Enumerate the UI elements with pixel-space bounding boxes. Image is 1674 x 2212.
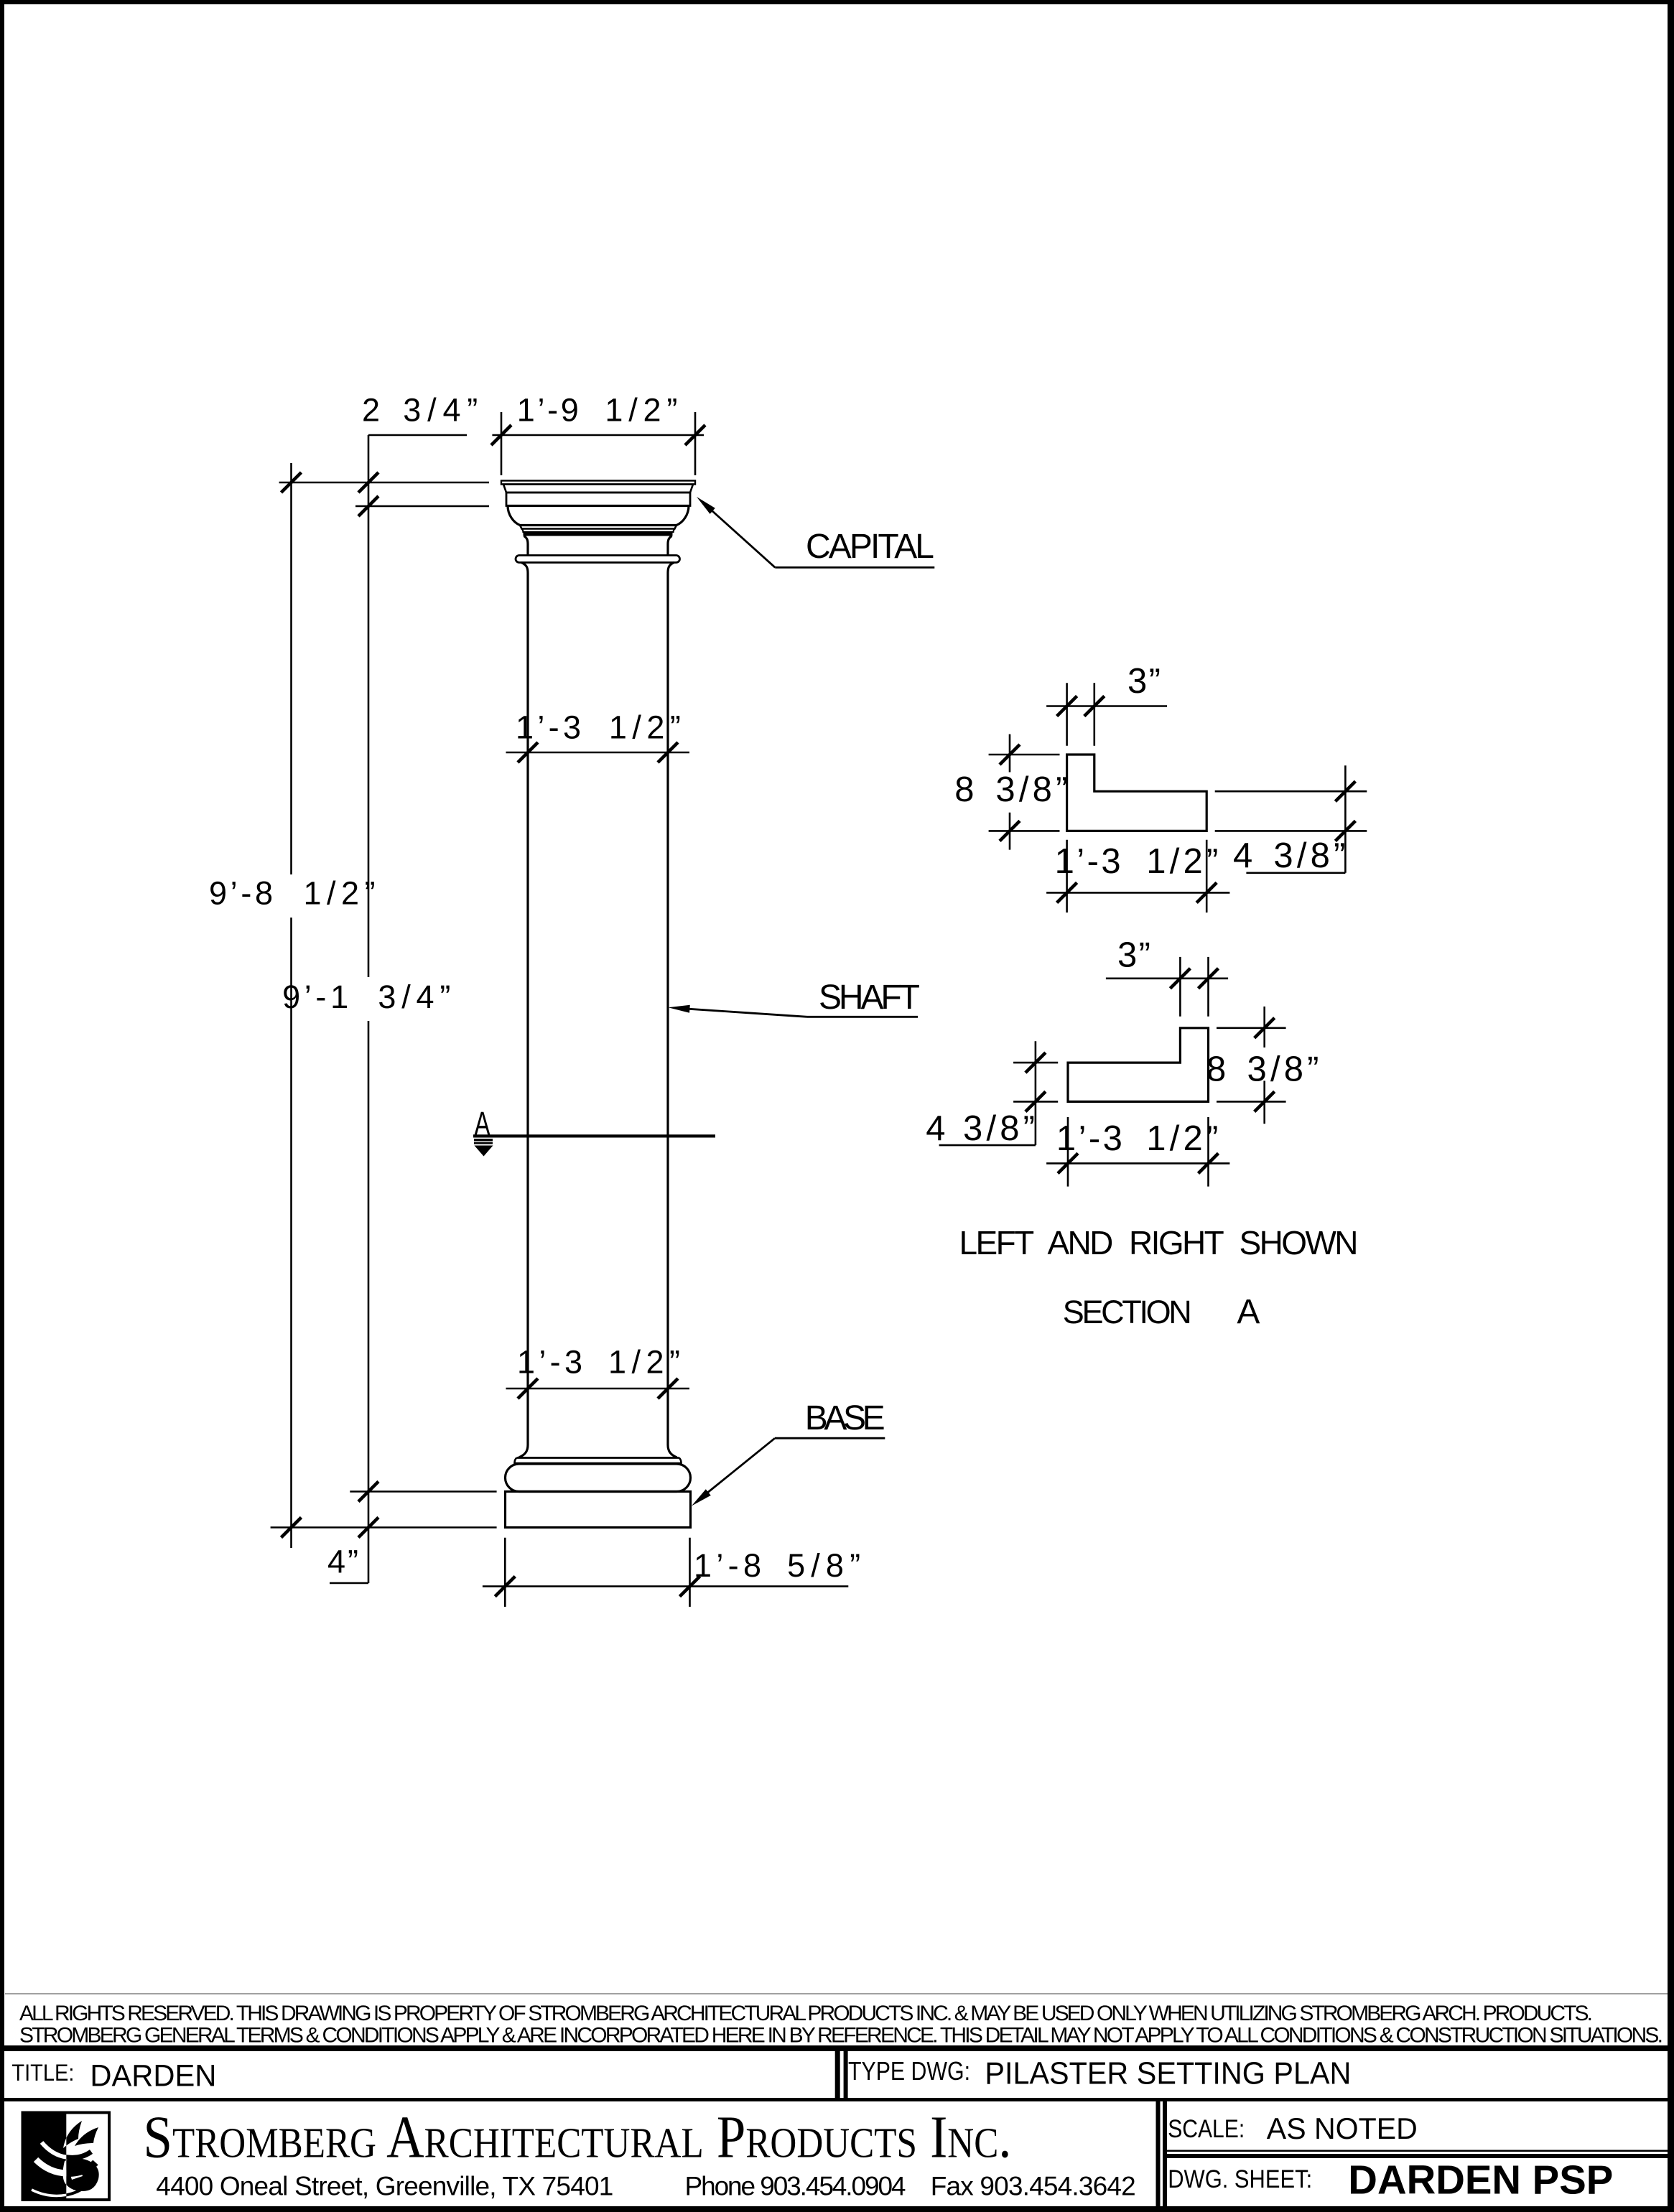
logo row vertical divider: [1156, 2101, 1168, 2206]
detail2 dim 8 3/8" line: [1263, 1007, 1265, 1124]
logo box: [22, 2111, 109, 2201]
svg-text:8: 8: [1206, 1050, 1226, 1088]
svg-text:SHAFT: SHAFT: [819, 979, 920, 1017]
svg-text:4: 4: [1233, 836, 1252, 875]
dim text 4": [327, 1544, 358, 1580]
svg-text:AS NOTED: AS NOTED: [1267, 2111, 1418, 2145]
detail1 dim text 1'-3 1/2": [1055, 842, 1219, 881]
dim text 1'-3 1/2" bottom: [517, 1343, 680, 1380]
detail2 dim text 1'-3 1/2": [1056, 1119, 1218, 1158]
extension line capital top: [279, 482, 489, 484]
sheet value DARDEN PSP: [1348, 2157, 1613, 2203]
title block thick top band: [0, 2045, 1674, 2051]
detail1 dim 4 3/8" extension lines: [1215, 791, 1367, 831]
svg-text:ALL RIGHTS RESERVED. THIS DRAW: ALL RIGHTS RESERVED. THIS DRAWING IS PRO…: [19, 2002, 1593, 2025]
label DWG. SHEET:: [1168, 2165, 1312, 2193]
svg-text:TYPE DWG:: TYPE DWG:: [848, 2056, 970, 2086]
leader SHAFT: [688, 1009, 918, 1017]
capital fillet: [520, 526, 676, 529]
svg-text:3”: 3”: [1127, 662, 1161, 701]
shaft right edge: [666, 573, 669, 1445]
capital neck groove bar: [522, 529, 675, 536]
capital apophyge into shaft: [521, 563, 674, 574]
detail2 dim line 1'-3 1/2": [1046, 1162, 1229, 1165]
svg-text:DWG. SHEET:: DWG. SHEET:: [1168, 2165, 1312, 2193]
detail2 dim 4 3/8" text leader: [939, 1144, 1036, 1147]
svg-text:Stromberg Architectural Produc: Stromberg Architectural Products Inc.: [144, 2104, 1012, 2171]
title row bottom line: [4, 2098, 1668, 2101]
section marker A triangle: [475, 1146, 493, 1157]
capital astragal bead: [516, 556, 680, 563]
svg-text:8: 8: [954, 770, 974, 809]
detail1 dim 1'-3 1/2" extension lines: [1067, 840, 1207, 913]
section cut line A: [473, 1134, 715, 1137]
detail2 dim 4 3/8" extension lines: [1013, 1063, 1058, 1101]
svg-text:1’-3: 1’-3: [1056, 1119, 1122, 1158]
shaft left edge: [526, 573, 529, 1445]
svg-text:DARDEN PSP: DARDEN PSP: [1348, 2157, 1613, 2203]
svg-text:1’-3: 1’-3: [1055, 842, 1121, 881]
type value PILASTER SETTING PLAN: [985, 2056, 1351, 2091]
dim 2 3/4" text leader: [368, 434, 467, 437]
detail2 dim line 3": [1106, 978, 1228, 980]
capital abacus plate: [501, 481, 695, 485]
svg-text:2: 2: [362, 392, 380, 429]
capital abacus body: [506, 493, 690, 506]
capital crown moulding: [503, 485, 693, 493]
arrowhead SHAFT: [669, 1005, 690, 1013]
svg-text:DARDEN: DARDEN: [90, 2058, 216, 2093]
leader BASE: [707, 1438, 885, 1493]
disclaimer band top line: [5, 1993, 1668, 1994]
svg-text:9’-8: 9’-8: [209, 874, 273, 911]
base apophyge: [519, 1445, 677, 1458]
extension lines capital width: [501, 412, 695, 475]
svg-text:LEFT AND RIGHT SHOWN: LEFT AND RIGHT SHOWN: [959, 1224, 1359, 1261]
dim line 1'-3 1/2" bottom: [506, 1388, 690, 1390]
svg-text:4400 Oneal Street, Greenville,: 4400 Oneal Street, Greenville, TX 75401: [156, 2172, 613, 2201]
detail L lower outline: [1068, 1028, 1209, 1102]
svg-text:Phone 903.454.0904: Phone 903.454.0904: [685, 2172, 906, 2201]
title value DARDEN: [90, 2058, 216, 2093]
dim line 9'-1 3/4" vertical: [368, 435, 370, 1583]
label TYPE DWG:: [848, 2056, 970, 2086]
section marker A bars: [474, 1139, 493, 1144]
label TITLE:: [11, 2060, 74, 2086]
dim line 1'-9 1/2": [492, 434, 704, 437]
detail1 dim 4 3/8" text leader: [1246, 872, 1345, 874]
detail1 dim 8 3/8" line: [1009, 734, 1011, 850]
svg-text:SECTION: SECTION: [1063, 1294, 1192, 1330]
detail2 dim text 4 3/8": [926, 1109, 1035, 1148]
svg-text:TITLE:: TITLE:: [11, 2060, 74, 2086]
detail1 dim 8 3/8" extension lines: [989, 755, 1060, 831]
dim text 1'-8 5/8": [694, 1547, 860, 1584]
arrowhead BASE: [692, 1489, 711, 1506]
svg-text:Fax 903.454.3642: Fax 903.454.3642: [931, 2172, 1136, 2201]
detail2 dim 8 3/8" extension lines: [1217, 1028, 1286, 1102]
extension lines plinth width: [505, 1538, 689, 1607]
detail1 dim text 8 3/8": [954, 770, 1067, 809]
detail2 dim text 3": [1117, 936, 1150, 975]
dimension lines and leaders: [271, 412, 1367, 1607]
ticks: [282, 425, 1356, 1597]
svg-text:SCALE:: SCALE:: [1168, 2115, 1245, 2143]
detail1 dim text 4 3/8": [1233, 836, 1345, 875]
base torus: [506, 1464, 691, 1492]
detail L upper outline: [1067, 755, 1207, 831]
dim line 1'-3 1/2" top: [506, 752, 690, 754]
svg-text:A: A: [475, 1105, 490, 1142]
title row vertical divider: [835, 2051, 848, 2099]
detail1 dim line 1'-3 1/2": [1046, 892, 1229, 894]
extension line plinth top: [350, 1490, 496, 1493]
scale value AS NOTED: [1267, 2111, 1418, 2145]
dim text 2 3/4": [362, 392, 478, 429]
svg-text:STROMBERG GENERAL TERMS & COND: STROMBERG GENERAL TERMS & CONDITIONS APP…: [19, 2024, 1663, 2048]
detail2 dim 4 3/8" line: [1035, 1041, 1037, 1145]
detail1 dim text 3": [1127, 662, 1161, 701]
extension line abacus bottom: [355, 505, 489, 508]
svg-text:3”: 3”: [1117, 936, 1150, 975]
svg-text:1’-8: 1’-8: [694, 1547, 761, 1584]
oblique tick marks: [282, 425, 1356, 1597]
dim line 1'-8 5/8": [483, 1585, 848, 1587]
arrowhead CAPITAL: [697, 497, 715, 514]
svg-text:1’-9: 1’-9: [517, 392, 579, 429]
leader CAPITAL: [712, 510, 934, 567]
company name Stromberg Architectural Products Inc.: [144, 2104, 1012, 2171]
dim 4" text leader: [330, 1582, 368, 1585]
svg-text:4: 4: [926, 1109, 945, 1148]
dim line 9'-8 1/2" vertical: [290, 463, 292, 1548]
svg-text:1’-3: 1’-3: [517, 1343, 582, 1380]
detail1 dim 3" extension lines: [1067, 683, 1094, 745]
svg-text:A: A: [1237, 1293, 1260, 1331]
svg-text:4”: 4”: [327, 1544, 358, 1580]
base plinth: [506, 1492, 691, 1528]
dim text 1'-3 1/2" top: [516, 709, 681, 746]
capital neck: [524, 536, 672, 556]
svg-text:CAPITAL: CAPITAL: [806, 528, 934, 566]
detail1 dim line 3": [1046, 705, 1167, 707]
svg-text:9’-1: 9’-1: [282, 979, 348, 1015]
detail2 dim text 8 3/8": [1206, 1050, 1319, 1088]
svg-text:1’-3: 1’-3: [516, 709, 581, 746]
label SCALE:: [1168, 2115, 1245, 2143]
detail2 dim 1'-3 1/2" extension lines: [1068, 1117, 1209, 1187]
detail1 dim 4 3/8" line: [1344, 765, 1347, 873]
capital echinus: [508, 506, 689, 526]
base fillet band: [515, 1458, 682, 1464]
extension line plinth bottom: [271, 1526, 497, 1529]
svg-text:BASE: BASE: [805, 1399, 885, 1437]
svg-text:PILASTER SETTING PLAN: PILASTER SETTING PLAN: [985, 2056, 1351, 2091]
scale row divider line: [1167, 2150, 1668, 2159]
dim text 9'-1 3/4": [282, 979, 450, 1015]
dim text 1'-9 1/2": [517, 392, 678, 429]
dim text 9'-8 1/2": [209, 874, 376, 911]
detail2 dim 3" extension lines: [1180, 957, 1208, 1017]
address 4400 Oneal Street: [156, 2172, 1135, 2201]
